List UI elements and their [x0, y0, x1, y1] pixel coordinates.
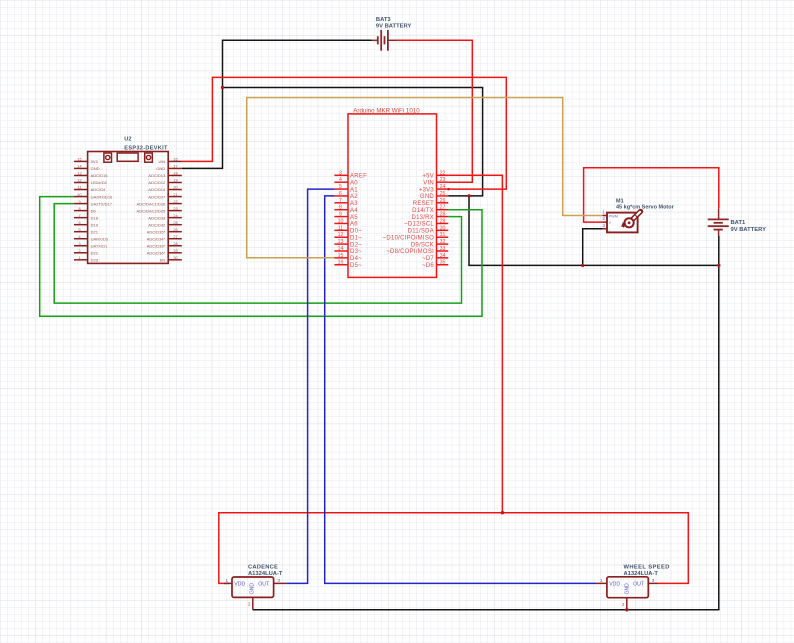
svg-text:+3V3: +3V3	[419, 187, 435, 193]
svg-text:34: 34	[440, 253, 446, 259]
pin 1 D23 (ESP32 left)	[74, 256, 99, 263]
svg-text:D22: D22	[91, 250, 99, 255]
svg-text:D23: D23	[91, 258, 99, 263]
ESP32 header graphic	[104, 153, 152, 162]
svg-text:15: 15	[338, 253, 344, 259]
svg-text:D13/RX: D13/RX	[411, 215, 434, 221]
pin 11 D0~ (Arduino left)	[334, 225, 362, 234]
svg-text:14: 14	[338, 246, 344, 252]
svg-text:21: 21	[173, 193, 177, 197]
svg-text:6: 6	[339, 191, 342, 197]
pin 23 VIN (Arduino right)	[423, 177, 448, 186]
wire blue CADENCE OUT to Arduino A1	[286, 189, 334, 583]
pin 2 + (servo)	[602, 216, 611, 226]
pin 3 OUT (CADENCE)	[258, 578, 286, 588]
pin 25 ADC/D32 (ESP32 right)	[148, 221, 182, 228]
junction WHEEL SPEED GND	[625, 608, 628, 611]
junction servo GND	[581, 264, 584, 267]
svg-text:30: 30	[440, 225, 446, 231]
svg-text:12: 12	[338, 232, 344, 238]
svg-text:7: 7	[78, 214, 80, 218]
pin 33 ~D8/COPI/MOSI (Arduino right)	[386, 246, 448, 255]
svg-text:ADC/D36*: ADC/D36*	[147, 250, 166, 255]
svg-text:26: 26	[173, 228, 177, 232]
svg-text:10: 10	[338, 218, 344, 224]
pin 5 D21 (ESP32 left)	[74, 228, 99, 235]
svg-text:5: 5	[78, 228, 80, 232]
svg-text:GND: GND	[156, 166, 165, 171]
pin 18 ADC/D13 (ESP32 right)	[148, 172, 182, 179]
svg-text:ADC/DAC2/D25: ADC/DAC2/D25	[137, 208, 166, 213]
svg-text:GND: GND	[250, 583, 256, 595]
servo horn icon	[621, 211, 640, 227]
svg-text:ADC/D39*: ADC/D39*	[147, 243, 166, 248]
svg-text:33: 33	[440, 246, 446, 252]
pin 12 LED#/D2 (ESP32 left)	[74, 179, 108, 186]
svg-text:28: 28	[440, 212, 446, 218]
svg-text:ESP32-DEVKIT: ESP32-DEVKIT	[124, 146, 168, 152]
sensor WHEEL SPEED A1324LUA-T body	[607, 577, 648, 598]
label U2 ESP32-DEVKIT	[124, 137, 168, 152]
svg-text:OUT: OUT	[258, 582, 270, 588]
pin 15 3V3 (ESP32 left)	[74, 158, 98, 165]
pin 20 ADC/D14 (ESP32 right)	[148, 186, 182, 193]
svg-text:29: 29	[440, 218, 446, 224]
svg-text:EN: EN	[160, 258, 166, 263]
svg-text:1: 1	[602, 210, 605, 215]
svg-text:ADC/D34*: ADC/D34*	[147, 236, 166, 241]
svg-text:13: 13	[338, 239, 344, 245]
wire black GND branch down to servo/BAT1 row	[469, 196, 719, 266]
svg-text:32: 32	[440, 239, 446, 245]
svg-text:13: 13	[77, 172, 81, 176]
pin 22 ADC/DAC1/D26 (ESP32 right)	[137, 200, 182, 207]
svg-text:A4: A4	[350, 208, 358, 214]
svg-text:ADC/D12: ADC/D12	[148, 180, 166, 185]
pin 21 ADC/D27 (ESP32 right)	[148, 193, 182, 200]
svg-text:3: 3	[78, 242, 80, 246]
junction BAT1- GND	[717, 264, 720, 267]
pin 16 D5~ (Arduino left)	[334, 260, 362, 269]
svg-text:27: 27	[173, 235, 177, 239]
svg-text:UA2RX/D16: UA2RX/D16	[91, 194, 114, 199]
pin 29 ADC/D36* (ESP32 right)	[147, 249, 182, 256]
svg-text:45 kg*cm Servo Motor: 45 kg*cm Servo Motor	[616, 204, 675, 210]
wire green Arduino D13/RX to ESP32 UA2TX/D17	[54, 204, 461, 304]
svg-text:A6: A6	[350, 222, 358, 228]
svg-text:RESET: RESET	[413, 201, 434, 207]
pin 27 D14/TX (Arduino right)	[412, 205, 448, 214]
pin 1 PWM (servo)	[602, 210, 618, 219]
svg-text:LED#/D2: LED#/D2	[91, 180, 108, 185]
svg-text:ADC/D15: ADC/D15	[91, 173, 109, 178]
svg-text:WHEEL SPEED: WHEEL SPEED	[624, 565, 670, 571]
motor M1 body	[607, 213, 638, 233]
label Arduino MKR WiFi 1010	[353, 108, 420, 115]
svg-text:22: 22	[173, 200, 177, 204]
svg-text:UA2TX/D17: UA2TX/D17	[91, 201, 113, 206]
transistor U2 ESP32-DEVKIT body	[88, 152, 169, 264]
pin 19 ADC/D12 (ESP32 right)	[148, 179, 182, 186]
svg-text:3: 3	[602, 223, 605, 228]
svg-text:BAT1: BAT1	[731, 220, 746, 226]
svg-text:D5~: D5~	[350, 263, 362, 269]
svg-text:Arduino MKR WiFi 1010: Arduino MKR WiFi 1010	[353, 108, 420, 115]
pin 9 A5 (Arduino left)	[334, 212, 358, 221]
label CADENCE A1324LUA-T	[248, 565, 283, 577]
svg-text:24: 24	[440, 184, 446, 190]
pin 1 VDD (CADENCE)	[224, 578, 246, 588]
svg-text:ADC/D35*: ADC/D35*	[147, 229, 166, 234]
svg-text:UARX/D3: UARX/D3	[91, 236, 109, 241]
svg-text:UATX/D1: UATX/D1	[91, 243, 108, 248]
svg-text:D4~: D4~	[350, 256, 362, 262]
pin 2 GND (WHEEL SPEED)	[622, 583, 630, 610]
wire red BAT3+ to Arduino VIN	[397, 40, 472, 182]
junction GND at black T	[221, 86, 224, 89]
svg-text:16: 16	[338, 260, 344, 266]
svg-text:ADC/D32: ADC/D32	[148, 222, 166, 227]
svg-text:2: 2	[602, 216, 605, 221]
svg-text:14: 14	[77, 165, 81, 169]
sensor CADENCE A1324LUA-T body	[232, 577, 274, 597]
junction +5V / sensor VDD bus	[501, 511, 504, 514]
svg-text:1: 1	[226, 578, 229, 583]
pin 6 D19 (ESP32 left)	[74, 221, 99, 228]
pin 9 UA2TX/D17 (ESP32 left)	[74, 200, 113, 207]
pin 3 UATX/D1 (ESP32 left)	[74, 242, 108, 249]
pin 10 UA2RX/D16 (ESP32 left)	[74, 193, 113, 200]
svg-text:11: 11	[338, 225, 343, 231]
pin 24 +3V3 (Arduino right)	[419, 184, 448, 193]
svg-text:26: 26	[440, 198, 446, 204]
svg-text:18: 18	[173, 172, 177, 176]
wire red CADENCE pin1 segment	[218, 582, 229, 584]
junction at Arduino +3V3 pin	[447, 188, 450, 191]
pin 23 ADC/DAC2/D25 (ESP32 right)	[137, 207, 182, 214]
svg-text:A1: A1	[350, 187, 358, 193]
svg-text:ADC/D13: ADC/D13	[148, 173, 166, 178]
svg-text:A0: A0	[350, 180, 358, 186]
svg-text:~D8/COPI/MOSI: ~D8/COPI/MOSI	[386, 249, 434, 255]
wire red sensor VDD loop	[219, 513, 689, 584]
pin 35 ~D6 (Arduino right)	[422, 260, 448, 269]
pin 27 ADC/D34* (ESP32 right)	[147, 235, 182, 242]
svg-text:D0~: D0~	[350, 229, 362, 235]
svg-text:27: 27	[440, 205, 446, 211]
svg-text:3: 3	[652, 578, 655, 583]
svg-text:16: 16	[173, 158, 177, 162]
svg-text:9: 9	[339, 212, 342, 218]
svg-text:D19: D19	[91, 222, 99, 227]
svg-text:D9/SCK: D9/SCK	[411, 242, 434, 248]
svg-text:A2: A2	[350, 194, 358, 200]
svg-text:3: 3	[277, 578, 280, 583]
svg-text:A1324LUA-T: A1324LUA-T	[624, 571, 659, 577]
svg-text:9: 9	[78, 200, 80, 204]
pin 3 OUT (WHEEL SPEED)	[633, 578, 658, 588]
svg-text:25: 25	[440, 191, 446, 197]
pin 10 A6 (Arduino left)	[334, 218, 358, 227]
svg-text:U2: U2	[124, 137, 131, 143]
svg-text:VDD: VDD	[609, 582, 620, 588]
svg-text:8: 8	[78, 207, 80, 211]
svg-text:29: 29	[173, 249, 177, 253]
pin 11 ADC/D4 (ESP32 left)	[74, 186, 106, 193]
pin 8 A4 (Arduino left)	[334, 205, 358, 214]
svg-text:D2~: D2~	[350, 242, 362, 248]
pin 3 - (servo)	[602, 223, 610, 233]
svg-text:ADC/DAC1/D26: ADC/DAC1/D26	[137, 201, 166, 206]
svg-text:5: 5	[339, 184, 342, 190]
svg-text:GND: GND	[91, 166, 100, 171]
svg-text:35: 35	[440, 260, 446, 266]
svg-text:AREF: AREF	[350, 174, 367, 180]
svg-text:~D12/SCL: ~D12/SCL	[404, 222, 434, 228]
svg-text:23: 23	[440, 177, 446, 183]
pin 2 D22 (ESP32 left)	[74, 249, 99, 256]
svg-text:VDD: VDD	[234, 582, 245, 588]
pin 2 GND (CADENCE)	[248, 583, 256, 610]
pin 5 A1 (Arduino left)	[334, 184, 358, 193]
pin 13 D2~ (Arduino left)	[334, 239, 362, 248]
svg-text:25: 25	[173, 221, 177, 225]
svg-text:1: 1	[600, 578, 603, 583]
label WHEEL SPEED A1324LUA-T	[624, 565, 670, 577]
svg-text:9V BATTERY: 9V BATTERY	[376, 24, 412, 30]
label M1 45 kg*cm Servo Motor	[616, 199, 675, 211]
svg-text:4: 4	[339, 177, 342, 183]
pin 6 A2 (Arduino left)	[334, 191, 358, 200]
pin 32 D9/SCK (Arduino right)	[411, 239, 448, 248]
svg-text:D14/TX: D14/TX	[412, 208, 434, 214]
svg-text:12: 12	[77, 179, 81, 183]
svg-text:1: 1	[78, 256, 80, 260]
wire tan Arduino D4~ to servo PWM	[247, 98, 603, 258]
wire red Arduino +5V down to sensor VDD bus	[448, 175, 502, 512]
svg-text:4: 4	[78, 235, 80, 239]
svg-text:2: 2	[78, 249, 80, 253]
svg-text:9V BATTERY: 9V BATTERY	[731, 227, 767, 233]
svg-text:D18: D18	[91, 215, 99, 220]
pin 13 ADC/D15 (ESP32 left)	[74, 172, 108, 179]
svg-text:D5: D5	[91, 208, 97, 213]
pin 26 ADC/D35* (ESP32 right)	[147, 228, 182, 235]
svg-text:3: 3	[339, 170, 342, 176]
battery BAT3	[372, 30, 398, 51]
svg-text:15: 15	[77, 158, 81, 162]
label BAT1	[731, 220, 767, 233]
svg-text:GND: GND	[624, 583, 630, 595]
svg-text:24: 24	[173, 214, 177, 218]
svg-text:+5V: +5V	[422, 174, 434, 180]
svg-text:ADC/D33: ADC/D33	[148, 215, 166, 220]
svg-text:~D10/CIPO/MISO: ~D10/CIPO/MISO	[383, 235, 434, 241]
svg-text:A3: A3	[350, 201, 358, 207]
svg-text:D21: D21	[91, 229, 99, 234]
svg-text:ADC/D4: ADC/D4	[91, 187, 106, 192]
svg-text:ADC/D14: ADC/D14	[148, 187, 166, 192]
svg-text:~D6: ~D6	[422, 263, 434, 269]
pin 30 EN (ESP32 right)	[160, 256, 182, 263]
pin 14 GND (ESP32 left)	[74, 165, 100, 172]
battery BAT1	[708, 209, 729, 236]
svg-text:OUT: OUT	[633, 582, 645, 588]
svg-text:A1324LUA-T: A1324LUA-T	[248, 571, 283, 577]
pin 34 ~D7 (Arduino right)	[422, 253, 448, 262]
pin 14 D3~ (Arduino left)	[334, 246, 362, 255]
svg-text:A5: A5	[350, 215, 358, 221]
svg-text:VIN: VIN	[159, 159, 166, 164]
svg-text:23: 23	[173, 207, 177, 211]
pin 1 VDD (WHEEL SPEED)	[596, 578, 620, 588]
pin 26 RESET (Arduino right)	[413, 198, 449, 207]
svg-text:6: 6	[78, 221, 80, 225]
svg-text:GND: GND	[420, 194, 435, 200]
pin 7 A3 (Arduino left)	[334, 198, 358, 207]
svg-text:8: 8	[339, 205, 342, 211]
pin 7 D18 (ESP32 left)	[74, 214, 99, 221]
pin 28 ADC/D39* (ESP32 right)	[147, 242, 182, 249]
op-amp U? Arduino MKR WiFi 1010 body	[348, 114, 437, 278]
svg-text:CADENCE: CADENCE	[248, 565, 278, 571]
pin 30 D11/SDA (Arduino right)	[408, 225, 449, 234]
pin 31 ~D10/CIPO/MISO (Arduino right)	[383, 232, 449, 241]
svg-text:7: 7	[339, 198, 342, 204]
wire red BAT1+ to servo pin2	[584, 168, 719, 222]
svg-text:22: 22	[440, 170, 446, 176]
svg-text:D1~: D1~	[350, 235, 362, 241]
junction Arduino GND branch	[467, 194, 470, 197]
pin 25 GND (Arduino right)	[420, 191, 448, 200]
svg-text:~D7: ~D7	[422, 256, 434, 262]
svg-text:30: 30	[173, 256, 177, 260]
wire black GND branch to Arduino GND	[223, 88, 483, 196]
svg-text:D11/SDA: D11/SDA	[408, 229, 434, 235]
pin 4 A0 (Arduino left)	[334, 177, 358, 186]
pin 28 D13/RX (Arduino right)	[411, 212, 448, 221]
wire black BAT1- down to bottom GND bus	[253, 236, 719, 610]
pin 17 GND (ESP32 right)	[156, 165, 181, 172]
wire black servo pin3 to GND row	[583, 229, 603, 266]
wire black BAT3- to ESP32 GND	[182, 40, 372, 168]
pin 22 +5V (Arduino right)	[422, 170, 448, 179]
wire blue WHEEL SPEED pin1 to Arduino A2	[325, 196, 596, 584]
svg-text:17: 17	[173, 165, 177, 169]
svg-text:D3~: D3~	[350, 249, 362, 255]
wire green Arduino D14/TX to ESP32 UA2RX/D16	[40, 197, 482, 317]
pin 24 ADC/D33 (ESP32 right)	[148, 214, 182, 221]
pin 8 D5 (ESP32 left)	[74, 207, 96, 214]
pin 3 AREF (Arduino left)	[334, 170, 367, 179]
svg-text:+: +	[609, 221, 612, 226]
svg-text:20: 20	[173, 186, 177, 190]
svg-text:28: 28	[173, 242, 177, 246]
pin 12 D1~ (Arduino left)	[334, 232, 362, 241]
svg-text:19: 19	[173, 179, 177, 183]
svg-text:BAT3: BAT3	[376, 17, 391, 23]
pin 15 D4~ (Arduino left)	[334, 253, 362, 262]
svg-text:ADC/D27: ADC/D27	[148, 194, 166, 199]
svg-text:3V3: 3V3	[91, 159, 99, 164]
svg-text:31: 31	[440, 232, 446, 238]
pin 29 ~D12/SCL (Arduino right)	[404, 218, 448, 227]
svg-text:PWM: PWM	[609, 215, 618, 219]
label BAT3	[376, 17, 412, 30]
wire red Arduino +3V3 to ESP32 VIN	[182, 77, 507, 189]
pin 16 VIN (ESP32 right)	[159, 158, 182, 165]
pin 4 UARX/D3 (ESP32 left)	[74, 235, 109, 242]
svg-text:VIN: VIN	[423, 180, 434, 186]
svg-text:10: 10	[77, 193, 81, 197]
svg-text:11: 11	[78, 186, 82, 190]
